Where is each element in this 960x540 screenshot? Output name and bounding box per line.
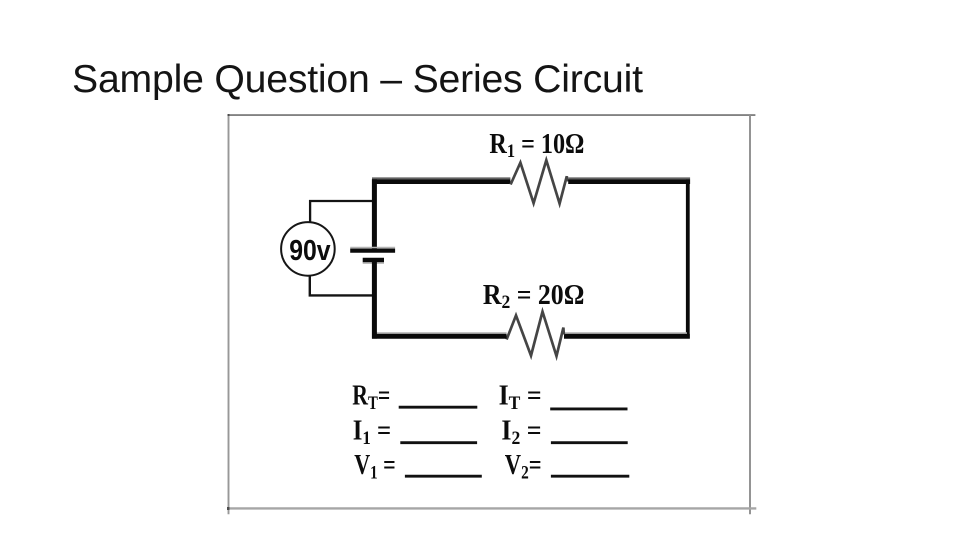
wire top right segment <box>568 178 690 181</box>
svg-text:90v: 90v <box>289 235 331 267</box>
svg-text:RT=: RT= <box>352 380 390 414</box>
battery B1 <box>350 248 395 264</box>
slide title <box>72 60 643 99</box>
wire left vertical lower <box>372 261 377 339</box>
wire bottom left segment <box>372 333 507 336</box>
label V2 blank <box>505 450 630 484</box>
label I2 blank <box>501 416 627 450</box>
wire thin branch bottom <box>310 276 372 296</box>
label RT blank <box>352 380 477 414</box>
svg-text:V2=: V2= <box>505 450 542 484</box>
resistor R1 <box>511 160 568 203</box>
voltage source 90v <box>281 222 335 276</box>
svg-text:I1 =: I1 = <box>353 416 391 450</box>
svg-text:V1 =: V1 = <box>354 450 396 484</box>
label I1 blank <box>353 416 477 450</box>
svg-text:R1 = 10Ω: R1 = 10Ω <box>489 129 584 162</box>
svg-text:I2 =: I2 = <box>501 416 541 450</box>
wire right vertical <box>686 179 690 338</box>
wire bottom right segment <box>564 333 690 336</box>
wire left vertical upper <box>372 179 377 249</box>
decorative frame (not a component) <box>227 114 755 116</box>
wire top left segment <box>372 178 510 181</box>
wire thin branch top <box>310 201 372 222</box>
resistor R2 <box>507 312 564 357</box>
label IT blank <box>499 380 628 414</box>
svg-text:R2 = 20Ω: R2 = 20Ω <box>483 280 585 313</box>
svg-text:IT =: IT = <box>499 380 542 414</box>
label V1 blank <box>354 450 482 484</box>
